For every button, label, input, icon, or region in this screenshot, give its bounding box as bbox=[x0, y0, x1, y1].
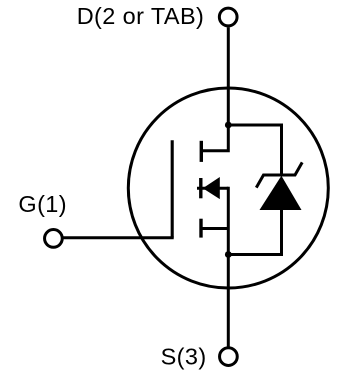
terminal S bbox=[220, 348, 238, 366]
terminal D bbox=[219, 8, 237, 26]
zener diode cathode bar bbox=[256, 162, 302, 187]
wire D terminal to drain corner bbox=[201, 27, 228, 151]
wire source junction to S terminal bbox=[227, 255, 230, 348]
wire diode anode to source junction bbox=[228, 210, 281, 255]
svg-text:D(2 or TAB): D(2 or TAB) bbox=[77, 3, 205, 29]
svg-text:S(3): S(3) bbox=[161, 343, 207, 369]
channel segment source bar bbox=[199, 219, 202, 238]
terminal G bbox=[45, 230, 63, 248]
body arrow head bbox=[203, 177, 220, 199]
wire body/source vertical bbox=[227, 187, 230, 255]
gate electrode line bbox=[171, 140, 174, 237]
channel segment drain bar bbox=[200, 141, 203, 162]
zener diode anode triangle bbox=[260, 176, 302, 210]
transistor envelope bbox=[128, 88, 328, 288]
wire gate to G terminal bbox=[64, 236, 174, 239]
wire source lead bbox=[201, 227, 228, 230]
svg-text:G(1): G(1) bbox=[18, 191, 67, 217]
wire drain junction to diode cathode bbox=[228, 125, 281, 176]
channel segment body bar bbox=[199, 178, 202, 198]
node source junction bbox=[225, 251, 232, 258]
body arrow line bbox=[197, 187, 228, 190]
node drain junction bbox=[225, 122, 232, 129]
